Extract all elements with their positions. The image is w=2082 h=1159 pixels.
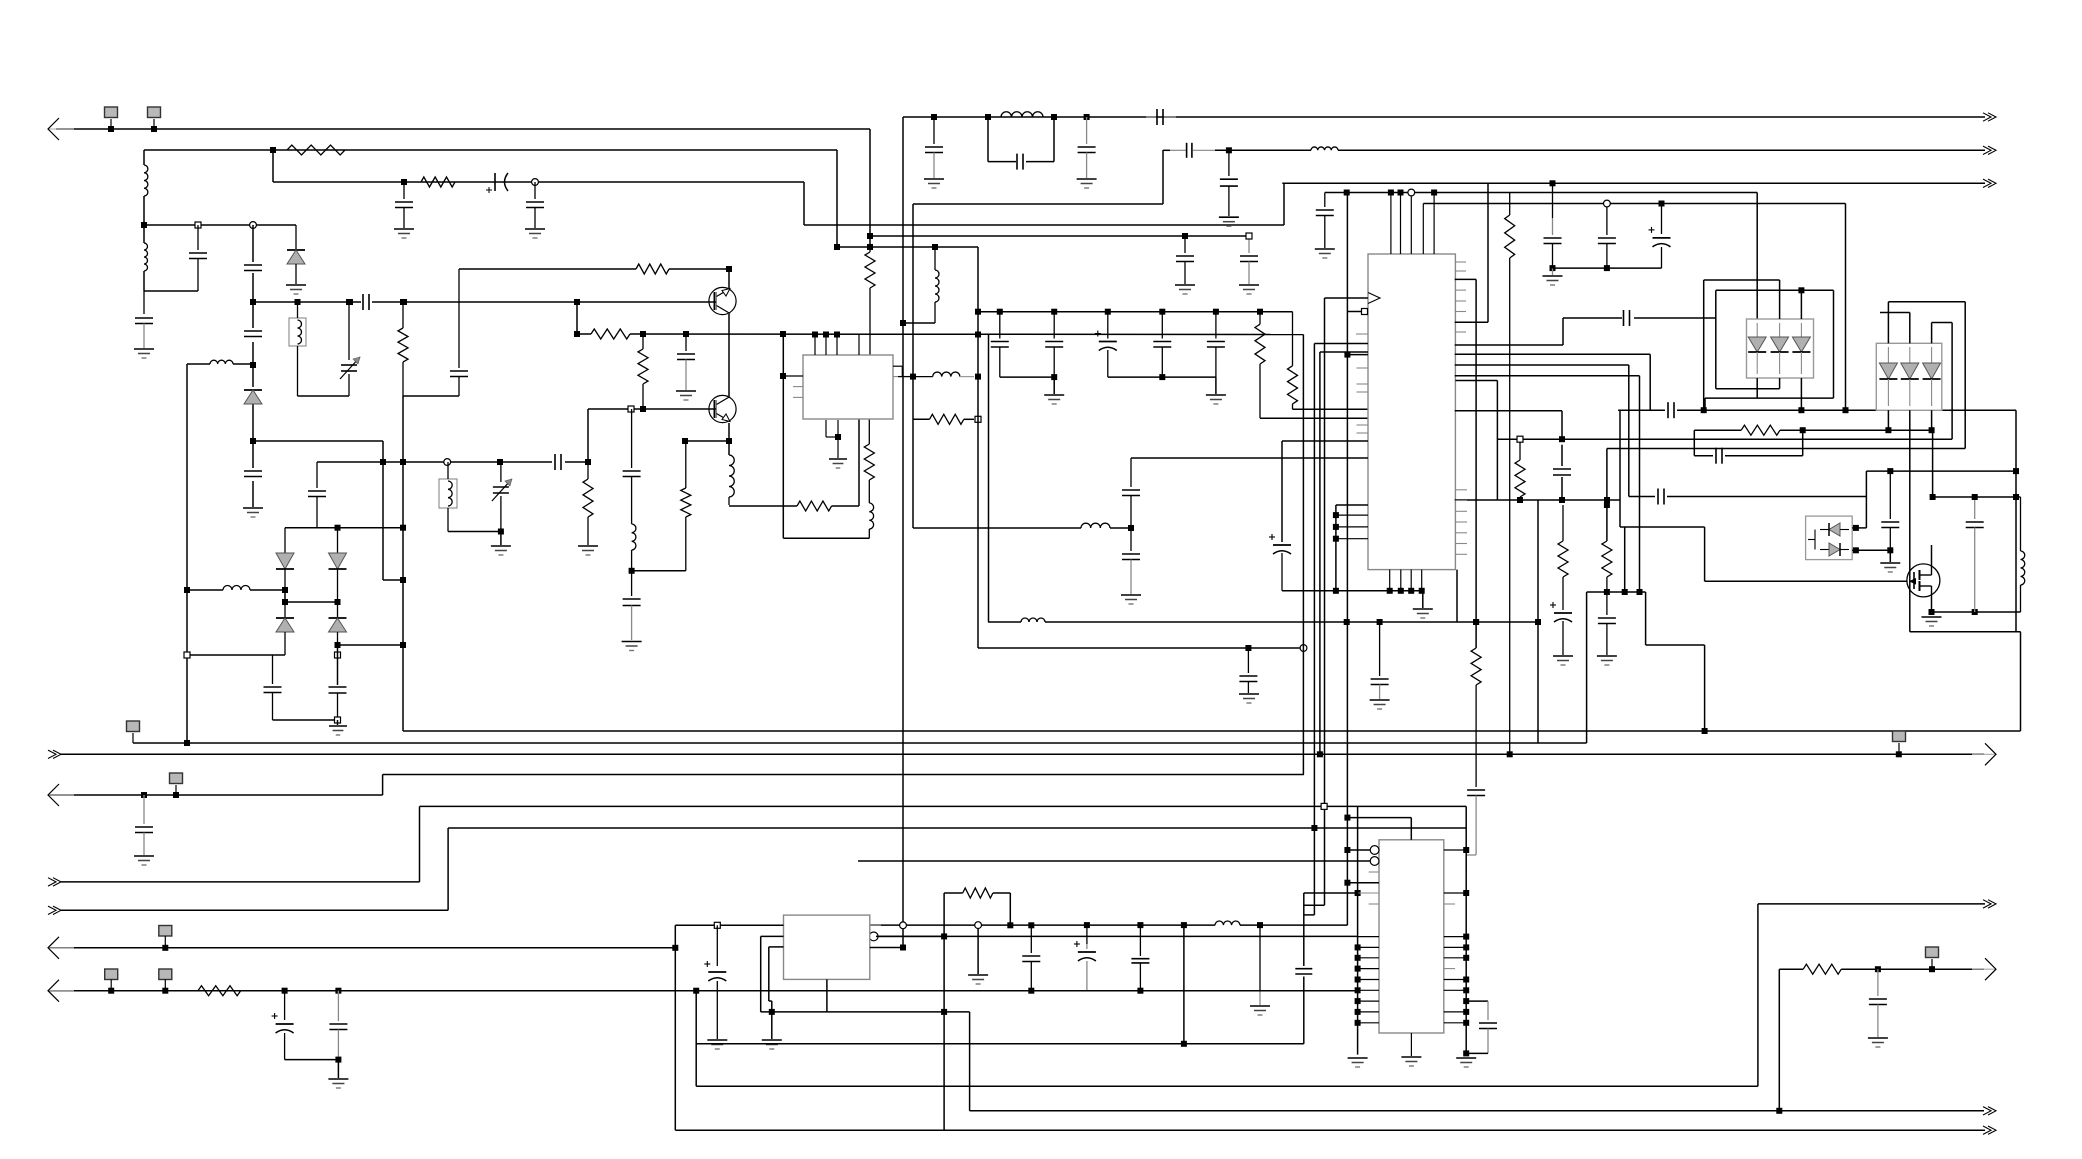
wire y893 [1304,892,1358,894]
wire [1931,323,1933,344]
wire y731 [403,730,2021,732]
wire y592 [1587,591,1646,593]
pin wire [1455,321,1488,323]
wire [1562,318,1564,345]
pin wire y334 [1356,333,1368,335]
junction [1517,497,1523,503]
junction [173,792,179,798]
wire x1965.2 [1964,302,1966,449]
junction [941,933,947,939]
node right arrow 2 [1983,146,1996,154]
junction [1355,890,1361,896]
pin wire [1336,526,1368,528]
junction [1181,1041,1187,1047]
node right arrow 4 [1972,743,1996,765]
junction [869,932,878,941]
junction [1463,1050,1469,1056]
junction [1028,988,1034,994]
junction [672,945,678,951]
wire y1001 [1466,1000,1488,1002]
junction [1535,619,1541,625]
capacitor C15 [244,331,262,337]
capacitor C33 [1553,469,1571,475]
wire x1866.4 [1865,471,1867,528]
junction [1559,497,1565,503]
junction [1300,645,1307,652]
ground [1044,395,1064,404]
junction [250,299,256,305]
junction [975,332,981,338]
wire x1357.6 [1357,806,1359,1054]
junction [401,299,407,305]
wire [1645,592,1647,645]
wire [1800,290,1802,319]
capacitor C8 [1078,117,1096,178]
pin [1421,570,1423,591]
junction [823,332,829,338]
capacitor C22 [329,687,347,720]
junction [1028,922,1034,928]
resistor R6 [636,264,669,274]
ground [707,1040,727,1049]
inductor L5 [1081,523,1110,528]
wire x253 chain [252,225,254,507]
wire y754.3 [61,753,1984,755]
wire x1586.6 [1586,592,1588,743]
junction [1604,497,1610,503]
wire y302 [253,301,716,303]
wire y590 [187,589,285,591]
ground [491,546,511,555]
pin wire y345 [1455,344,1563,346]
wire x1620 [1619,410,1621,527]
pin wire y343 [1314,343,1368,345]
pin wire [1336,538,1368,540]
diode D5 [276,602,294,655]
capacitor C49 [1022,925,1040,991]
wire [144,149,837,151]
wire y322.5 [1932,322,1953,324]
resistor R21 [1803,964,1841,974]
transistor Q3 mosfet [1907,564,1940,597]
capacitor C58 [623,599,641,640]
capacitor C12 [135,291,153,348]
resistor R18 [1741,425,1780,435]
capacitor C34 [1466,790,1485,872]
junction [532,179,539,186]
wire y192 [1325,192,1757,194]
pin wire [761,936,784,1012]
pin [858,335,860,356]
junction [931,114,937,120]
wire x1628.8 [1628,365,1630,497]
capacitor C2 [526,182,544,228]
diode D8 [1771,323,1789,374]
terminal [195,222,201,228]
junction [1333,588,1339,594]
ground [829,459,847,468]
wire y774.5 [383,774,1304,776]
wire [144,290,198,292]
wire x903 [902,117,904,948]
capacitor C1 [395,182,413,228]
junction [900,922,907,929]
connector J8 [159,969,172,991]
clock pin [1368,293,1380,304]
wire [1931,597,1933,612]
wire [576,302,578,334]
rail dots U3 left [1355,944,1361,1025]
pin [1357,391,1369,393]
junction [1637,589,1643,595]
junction [401,179,407,185]
wire y936.4 [876,935,1358,937]
junction [1550,180,1556,186]
wire x187 [186,364,188,743]
junction [1344,847,1350,853]
wire y410.2 [1618,409,2016,411]
wire [1704,645,1706,731]
variable capacitor CV1 [340,302,360,396]
wire [337,720,339,725]
wire y377a [1000,376,1054,378]
wire y311 [978,311,1293,313]
junction [2013,468,2019,474]
wire y743 [133,742,1587,744]
junction [985,114,991,120]
wire [1456,570,1458,622]
wire x978 [977,247,979,648]
wire [143,150,145,165]
wire x969.6 [969,1012,971,1111]
wire x144 chain [143,225,145,291]
junction [780,331,786,337]
inductor L17 [1215,921,1240,925]
wire x675.3 [674,925,676,1130]
junction [1419,588,1425,594]
junction [282,988,288,994]
junction [1431,190,1437,196]
wire y377b [1108,376,1216,378]
junction [282,599,288,605]
junction [141,792,147,798]
capacitor C46 [135,795,153,855]
wire [1889,550,1891,562]
wire [337,1060,339,1078]
wire y645 [1646,644,1705,646]
pin [1357,367,1369,369]
capacitor C28 polarized [1095,312,1117,377]
wire [1259,925,1261,1005]
junction [444,459,451,466]
wire x859 [858,419,860,506]
capacitor C29 [1316,193,1334,249]
wire x588 [587,409,589,462]
diode D13 [1901,347,1919,406]
diode D1 [287,225,305,284]
wire x1303.4 [1302,335,1304,775]
wire [826,979,828,1012]
junction [1408,588,1414,594]
junction [2013,494,2019,500]
capacitor C19 [555,454,561,470]
wire y925.3 [870,924,1348,926]
wire y441 [253,440,383,442]
wire y538.3 [783,537,869,539]
wire [987,117,989,162]
wire [1552,268,1554,275]
capacitor C28b [1153,312,1171,377]
junction [497,459,503,465]
wire y462 [317,461,588,463]
capacitor C31 [1598,207,1616,268]
pin [1455,261,1466,263]
diode D12 [1879,347,1897,406]
wire y645 [338,644,404,646]
junction [834,244,840,250]
junction [975,922,982,929]
ic U1 [803,355,893,419]
wire [1649,354,1651,410]
pin wire y352 [1320,351,1368,353]
pin wire y410.8 [1455,410,1562,412]
wire [1833,290,1835,398]
wire y497 [1933,496,2021,498]
wire y806.4 [420,805,1467,807]
junction [1604,589,1610,595]
capacitor C27 [1045,312,1063,377]
resistor R9 [681,441,691,571]
junction [270,147,276,153]
wire y280 [1704,279,1780,281]
node left arrow out2 [48,878,61,886]
pin wire y375.7 [1455,375,1640,377]
wire y500 [1455,499,1620,501]
rail y527.7 [285,527,403,529]
pin [1444,968,1455,970]
junction [640,331,646,337]
inductor L11 [632,524,636,596]
junction [1972,609,1978,615]
junction [347,299,353,305]
wire y850 [1347,849,1372,851]
wire y301.8 [1888,301,1965,303]
ground [1206,395,1226,404]
wire x2016 [2015,410,2017,632]
wire y150b [1163,149,1985,151]
terminal [335,652,341,658]
ground [1315,249,1335,258]
capacitor C21 [264,655,282,720]
wire y183 [1282,182,1985,184]
junction [1333,524,1339,530]
capacitor C14 [244,265,262,271]
junction [1843,407,1849,413]
junction [910,374,916,380]
capacitor C57 [1295,969,1312,974]
terminal [714,922,720,928]
pin [825,335,827,356]
junction [1398,588,1404,594]
wire x1476.1 [1475,279,1477,648]
ground [1219,217,1239,226]
junction [1929,427,1935,433]
pin [1455,300,1466,302]
wire y580 [383,579,403,581]
junction [1051,374,1057,380]
wire [1932,430,1934,497]
inductor L15 [2021,497,2025,612]
ground [1077,179,1097,188]
wire y419.3 [913,418,974,420]
wire x783 [782,335,784,539]
wire y117 [903,116,1985,118]
junction [693,988,699,994]
resistor R2 [421,177,455,187]
wire [447,828,449,910]
pin [1444,903,1455,905]
capacitor C30 [1544,183,1562,266]
ground [924,179,944,188]
resistor R19 [963,888,993,898]
ground [134,349,154,358]
node right arrow 5 [1983,900,1996,908]
wire [1703,280,1705,410]
junction [1408,189,1415,196]
junction [1344,619,1350,625]
ground [1239,694,1259,703]
capacitor C23 [677,334,695,390]
pin [1400,570,1402,591]
pin [1455,270,1466,272]
wire Q2 emitter [728,423,730,455]
capacitor C25 [1371,622,1389,699]
resistor R15 [1471,648,1481,787]
wire [284,590,286,602]
junction [900,320,906,326]
pin [1410,196,1412,254]
diode D9 [1792,323,1810,374]
inductor L3 [1001,112,1043,117]
wire [1887,410,1889,430]
pin wire y354 [1347,354,1368,356]
wire [1909,410,1911,632]
junction [400,642,406,648]
wire y925in [675,924,783,926]
junction [1137,922,1143,928]
wire y655 [187,654,285,656]
capacitor C43 [1881,471,1899,550]
node right arrow 6 [1983,1107,1996,1115]
resistor R11 [864,419,874,503]
junction [400,299,406,305]
junction [585,459,591,465]
capacitor C48 polarized [704,925,726,1039]
node left arrow out1 [48,750,61,758]
pin wire [783,375,803,377]
wire y312.5 [1880,312,1910,314]
capacitor C45 [1716,448,1722,464]
capacitor C38 [1624,310,1630,326]
pin [793,386,803,388]
wire [1704,398,1706,410]
terminal [1321,803,1327,809]
wire [143,196,145,225]
junction [1798,287,1804,293]
ground [1597,656,1617,665]
pin U3 gnd [1410,1033,1412,1056]
resistor R12 [930,414,964,424]
capacitor C32 polarized [1649,204,1671,269]
wire y528 [913,527,1081,529]
junction [975,309,981,315]
wire [988,161,1054,163]
junction [1875,966,1881,972]
capacitor C39 [1668,402,1674,418]
capacitor C17 [363,294,369,310]
wire y471 [1866,470,2016,472]
wire y1086.2 [696,1085,1758,1087]
junction [184,740,190,746]
wire x1488 [1487,183,1489,322]
pin [1455,553,1467,555]
pin wire out3 [870,947,903,949]
resistor R4v [398,302,408,396]
junction [282,587,288,593]
junction [1887,468,1893,474]
wire x1757.9 [1757,904,1759,1086]
resistor R20 [198,986,241,996]
capacitor C54 [1239,648,1257,693]
junction [941,1009,947,1015]
wire x913 [912,204,914,528]
wire [500,532,502,546]
inductor L12 [729,455,734,505]
junction [1702,728,1708,734]
wire y396 [298,395,350,397]
junction [682,438,688,444]
ground [1543,276,1563,285]
wire y622 [988,621,1538,623]
wire y247 [837,246,978,248]
wire [1852,527,1866,529]
capacitor C26 [991,312,1009,377]
junction [335,988,341,994]
pin [1444,849,1466,851]
connector J6 [159,926,172,948]
junction [1550,265,1556,271]
junction [1853,525,1859,531]
resistor R8 [638,334,648,409]
junction [1604,502,1610,508]
wire x1845.5 [1845,204,1847,411]
junction [1128,525,1134,531]
inductor L14 [1021,618,1045,622]
wire y1130.2 [675,1129,1985,1131]
junction [1388,190,1394,196]
pin wire y505L [1336,504,1368,506]
junction [1507,751,1513,757]
wire y448.5 [1607,448,1965,450]
pin [1455,510,1467,512]
pin [1433,193,1435,255]
wire y225 [804,224,1284,226]
connector J3 [127,721,140,743]
junction [295,299,301,305]
junction [1051,309,1057,315]
wire [337,645,339,685]
ground [134,856,154,865]
